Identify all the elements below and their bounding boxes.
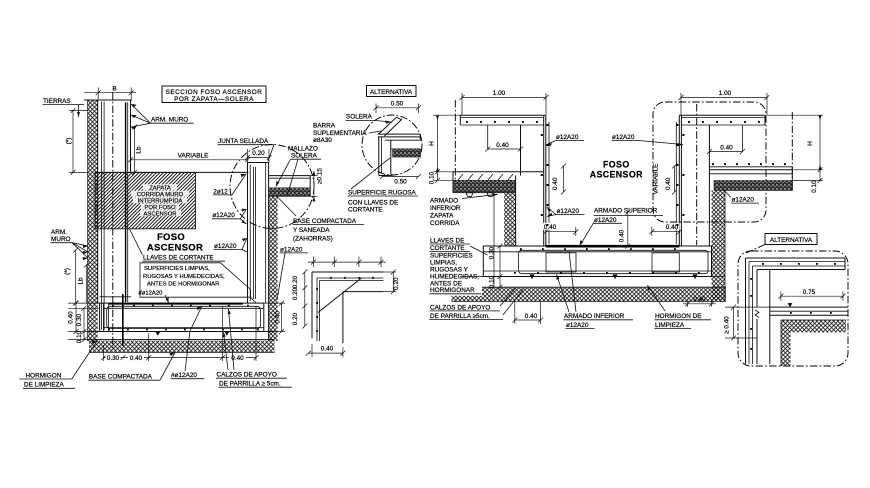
svg-text:HORMIGON: HORMIGON: [26, 372, 62, 379]
dowel bar: [122, 294, 124, 346]
label ø12A20 top left: [546, 134, 584, 146]
svg-text:#ø12A20: #ø12A20: [171, 372, 197, 379]
label CALZOS DE APOYO: [216, 309, 292, 388]
left slab-side dims 0.30 0.10: [489, 196, 503, 289]
svg-text:CORRIDA MURO: CORRIDA MURO: [137, 192, 184, 198]
svg-text:ø12A20: ø12A20: [612, 134, 635, 141]
svg-text:0.40: 0.40: [130, 355, 143, 362]
leader from note to slab: [165, 295, 169, 303]
svg-text:BARRA: BARRA: [313, 123, 336, 130]
svg-text:LLAVES DE: LLAVES DE: [430, 237, 464, 244]
svg-text:DE PARRILLA ≥5cm.: DE PARRILLA ≥5cm.: [430, 313, 490, 320]
left dims 0.40 0.30 0.10: [68, 301, 100, 344]
svg-text:ALTERNATIVA: ALTERNATIVA: [770, 237, 813, 244]
svg-text:#ø12A20: #ø12A20: [139, 291, 164, 297]
svg-text:0.75: 0.75: [803, 289, 816, 296]
svg-text:(*): (*): [66, 138, 73, 145]
svg-text:0.40: 0.40: [68, 311, 75, 324]
dimension 0.10 left: [429, 169, 454, 184]
svg-text:0.40: 0.40: [496, 142, 509, 149]
svg-text:0.40: 0.40: [720, 144, 733, 151]
label CALZOS DE APOYO right detail: [430, 288, 524, 320]
svg-text:0.10: 0.10: [76, 330, 83, 343]
svg-text:0.40: 0.40: [544, 224, 557, 231]
svg-text:0.10: 0.10: [489, 275, 496, 288]
0.40 vertical right wall: [665, 164, 677, 195]
svg-text:1.00: 1.00: [719, 90, 732, 97]
corner top dim line: [308, 257, 386, 268]
label MALLAZO SOLERA: [276, 146, 321, 197]
label ø12A20 mid left wall: [547, 207, 585, 217]
label BARRA SUPLEMENTARIA: [313, 123, 381, 144]
svg-text:0.20: 0.20: [292, 275, 299, 288]
svg-text:0.40: 0.40: [552, 177, 559, 190]
svg-text:H: H: [807, 141, 814, 146]
svg-text:ø12A20: ø12A20: [557, 208, 580, 215]
svg-text:CON LLAVES DE: CON LLAVES DE: [348, 199, 398, 206]
dimension 0.10 right: [792, 167, 823, 192]
svg-text:BASE COMPACTADA: BASE COMPACTADA: [89, 374, 153, 381]
right wall rounded dash rect: [653, 102, 766, 222]
left solera slab: [453, 172, 544, 197]
svg-text:ARMADO: ARMADO: [430, 198, 458, 205]
dimension 0.40 right wall: [707, 144, 745, 154]
svg-text:HORMIGONAR: HORMIGONAR: [430, 287, 475, 294]
label JUNTA SELLADA: [218, 138, 275, 161]
right wall verticals: [679, 115, 742, 246]
wall rebar verticals right detail: [548, 122, 550, 244]
svg-text:0.30: 0.30: [107, 355, 120, 362]
slab rebar dots right detail: [514, 248, 700, 274]
svg-text:Lb: Lb: [78, 277, 85, 285]
detail reference circle: [230, 145, 314, 229]
svg-text:MURO: MURO: [51, 236, 71, 243]
svg-text:VARIABLE: VARIABLE: [652, 164, 659, 195]
svg-text:0.40: 0.40: [525, 313, 538, 320]
svg-text:SUPERFICIE RUGOSA: SUPERFICIE RUGOSA: [348, 189, 417, 196]
zapata corrida hatched block: [95, 172, 196, 228]
earth band under slab: [89, 341, 275, 353]
svg-text:SUPERFICIES LIMPIAS,: SUPERFICIES LIMPIAS,: [144, 266, 210, 272]
calzos support triangles: [530, 275, 698, 280]
label BASE COMPACTADA: [88, 353, 175, 381]
label HORMIGON DE LIMPIEZA: [19, 341, 97, 389]
svg-text:ALTERNATIVA: ALTERNATIVA: [370, 89, 413, 96]
svg-text:POR ZAPATA—SOLERA: POR ZAPATA—SOLERA: [174, 96, 254, 103]
label ARMADO INFERIOR bottom: [557, 251, 634, 329]
svg-text:CORTANTE: CORTANTE: [430, 245, 465, 252]
svg-text:Lb: Lb: [136, 146, 143, 154]
corner bottom dim 0.40: [306, 344, 346, 357]
dimension 0.50 top: [374, 101, 421, 114]
label ø12A20 top right: [612, 134, 684, 146]
left dims (*) and Lb lower: [64, 248, 89, 306]
dimension 0.50 bottom: [380, 174, 421, 186]
svg-text:BASE COMPACTADA: BASE COMPACTADA: [293, 218, 357, 225]
svg-text:ø12A20: ø12A20: [214, 243, 237, 250]
earth strip right wall outside: [712, 191, 726, 301]
svg-text:ASCENSOR: ASCENSOR: [147, 243, 203, 254]
alt corner top slab: [746, 258, 846, 270]
title box: [162, 86, 266, 103]
svg-text:ASCENSOR: ASCENSOR: [143, 212, 176, 218]
label LLAVES DE CORTANTE ... left column: [428, 237, 488, 295]
corner left dims 0.20 x3: [292, 270, 307, 329]
label BASE COMPACTADA Y SANEADA: [293, 218, 365, 243]
label TIERRAS: [43, 98, 85, 117]
pit bottom slab: [100, 297, 264, 332]
dimension >=0.15: [310, 168, 323, 202]
svg-text:0.20: 0.20: [393, 277, 400, 290]
earth strip right of pit wall: [269, 196, 278, 341]
dimension H right: [767, 115, 823, 170]
earth strip left wall outside: [504, 193, 515, 246]
dimension 0.40 left wall: [485, 142, 523, 152]
svg-text:0.50: 0.50: [394, 179, 407, 186]
wall rebar marks left: [541, 124, 549, 226]
corner wall lines: [312, 272, 383, 343]
dimension Lb upper: [132, 125, 143, 175]
label ARMADO INFERIOR ZAPATA CORRIDA: [430, 193, 498, 227]
svg-text:H: H: [429, 141, 436, 146]
label SUPERFICIE RUGOSA: [348, 158, 419, 213]
earth hatch strip left wall: [88, 100, 98, 341]
label ø12A20 right solera: [722, 188, 759, 204]
dimension 0.40 bottom right: [683, 296, 716, 307]
svg-text:ASCENSOR: ASCENSOR: [590, 170, 643, 180]
label 2ø12: [213, 174, 246, 195]
svg-text:0.40: 0.40: [693, 296, 706, 303]
svg-text:≥0.15: ≥0.15: [317, 168, 324, 184]
dimension 0.40 key right: [649, 223, 682, 236]
svg-text:ARM.: ARM.: [51, 229, 67, 236]
alternativa label box right: [746, 234, 817, 254]
svg-text:ZAPATA: ZAPATA: [149, 186, 171, 192]
label SOLERA: [346, 114, 392, 124]
svg-text:ø12A20: ø12A20: [566, 322, 589, 329]
left wall axis dash-dot: [454, 100, 456, 180]
svg-text:JUNTA SELLADA: JUNTA SELLADA: [218, 138, 269, 145]
svg-text:CORTANTE: CORTANTE: [348, 206, 383, 213]
rounded dash border: [738, 251, 848, 366]
dimension >=0.40 alt: [724, 305, 770, 341]
svg-text:B: B: [112, 86, 116, 93]
bottom dim line: [101, 306, 259, 362]
left wall verticals: [488, 115, 546, 246]
dimension B: [84, 86, 136, 99]
svg-text:SOLERA: SOLERA: [291, 153, 318, 160]
svg-text:DE LIMPIEZA: DE LIMPIEZA: [24, 382, 65, 389]
FOSO ASCENSOR right: [590, 160, 643, 180]
right dim 0.40 of left detail: [264, 301, 285, 334]
alt rebar dots: [750, 263, 836, 350]
dimension 0.40 key left: [543, 223, 579, 236]
right solera slab: [709, 163, 792, 190]
pit bottom slab right detail: [483, 246, 711, 277]
svg-text:FOSO: FOSO: [603, 160, 630, 170]
dimension (*) upper: [66, 108, 89, 175]
calzos support triangles A: [155, 332, 229, 336]
svg-text:POR FOSO: POR FOSO: [144, 205, 176, 211]
corner right dim 0.20: [383, 270, 399, 295]
svg-text:0.40: 0.40: [619, 229, 626, 242]
label ø12A20 corner: [277, 246, 308, 300]
right wall axis dash-dot: [696, 104, 698, 245]
wall rebar marks right: [676, 124, 684, 226]
svg-text:ARM. MURO: ARM. MURO: [151, 117, 188, 124]
corner rebar dots: [316, 277, 374, 332]
svg-text:ø12A20: ø12A20: [280, 246, 303, 253]
hormigon de limpieza layer: [89, 332, 275, 340]
svg-text:LLAVES DE CORTANTE: LLAVES DE CORTANTE: [143, 255, 214, 262]
alt corner wall: [746, 258, 770, 364]
right top slab: [679, 115, 765, 125]
solera edge axis dash-dot: [791, 112, 793, 178]
label ø12A20 mid: [212, 209, 247, 224]
svg-text:0.20: 0.20: [292, 312, 299, 325]
label ARM. MURO lower: [51, 229, 89, 260]
leader base compactada to solera: [277, 196, 296, 216]
dimension 0.40 bottom left small: [512, 302, 543, 325]
svg-text:HORMIGON DE: HORMIGON DE: [655, 313, 702, 320]
svg-text:0.30: 0.30: [76, 313, 83, 326]
ground line to pit wall: [95, 171, 249, 173]
alternativa label box: [367, 86, 417, 97]
label LLAVES DE CORTANTE: [130, 229, 225, 262]
svg-text:(ZAHORRAS): (ZAHORRAS): [293, 235, 333, 242]
label #ø12A20 bottom: [171, 307, 205, 380]
svg-text:0.40: 0.40: [321, 346, 334, 353]
limpieza layer right detail: [451, 277, 726, 288]
svg-text:0.30: 0.30: [489, 246, 496, 259]
earth band right detail: [451, 288, 726, 302]
svg-text:1.00: 1.00: [493, 90, 506, 97]
svg-text:ARMADO INFERIOR: ARMADO INFERIOR: [564, 313, 625, 320]
svg-text:(*): (*): [64, 268, 71, 275]
pit floor thick line: [546, 245, 680, 248]
alt corner earth hatch: [781, 320, 846, 366]
label ø12A20 lower: [214, 238, 248, 252]
top slab rebar dots: [466, 121, 760, 123]
svg-text:ø12A20: ø12A20: [212, 212, 235, 219]
svg-text:SOLERA: SOLERA: [346, 114, 373, 121]
svg-text:MALLAZO: MALLAZO: [288, 146, 318, 153]
svg-text:0.10: 0.10: [811, 180, 818, 193]
svg-text:CALZOS DE APOYO: CALZOS DE APOYO: [430, 304, 490, 311]
svg-text:FOSO: FOSO: [157, 232, 185, 243]
alt solera slab: [378, 117, 420, 175]
dimension H left: [429, 115, 461, 172]
svg-text:ARMADO SUPERIOR: ARMADO SUPERIOR: [594, 208, 658, 215]
label ARMADO SUPERIOR: [580, 208, 663, 246]
dimension 0.40 vertical mid: [619, 210, 631, 249]
dimension 1.00 right: [679, 90, 770, 115]
dimension 1.00 left: [460, 90, 549, 115]
svg-text:CALZOS DE APOYO: CALZOS DE APOYO: [217, 372, 277, 379]
svg-text:VARIABLE: VARIABLE: [178, 153, 209, 160]
slab rebar dots: [108, 305, 259, 331]
svg-text:0.20: 0.20: [292, 287, 299, 300]
svg-text:SUPLEMENTARIA: SUPLEMENTARIA: [313, 130, 367, 137]
svg-text:ø12A20: ø12A20: [732, 197, 755, 204]
svg-text:Y SANEADA: Y SANEADA: [293, 227, 330, 234]
zapata text: [131, 184, 189, 217]
svg-text:ø12A20: ø12A20: [556, 134, 579, 141]
pit right wall: [248, 163, 269, 342]
label ARM. MURO top: [131, 104, 194, 130]
svg-text:ANTES DE HORMIGONAR: ANTES DE HORMIGONAR: [147, 282, 219, 288]
svg-text:0.40: 0.40: [275, 311, 282, 324]
svg-text:2ø12: 2ø12: [213, 188, 228, 195]
alt detail circle: [362, 115, 422, 175]
dimension 0.20 joint: [245, 149, 272, 163]
FOSO ASCENSOR big: [147, 232, 203, 254]
svg-text:ZAPATA: ZAPATA: [430, 213, 454, 220]
solera slab right of pit: [269, 176, 311, 197]
svg-text:ø8A30: ø8A30: [313, 137, 332, 144]
svg-text:0.20: 0.20: [252, 150, 265, 157]
wall muro lines: [84, 100, 132, 330]
alt corner solera: [770, 307, 848, 315]
note box superficies: [139, 263, 257, 303]
wall axis dash-dot: [112, 92, 114, 348]
svg-text:0.50: 0.50: [391, 101, 404, 108]
dimension 0.75: [778, 289, 845, 301]
svg-text:ø12A20: ø12A20: [594, 217, 617, 224]
dimension 0.40 vertical left pit: [552, 164, 566, 195]
svg-text:LIMPIEZA: LIMPIEZA: [655, 322, 685, 329]
svg-text:0.40: 0.40: [665, 177, 672, 190]
svg-text:TIERRAS: TIERRAS: [43, 98, 71, 105]
label HORMIGON DE LIMPIEZA bottom: [647, 285, 711, 329]
svg-text:RUGOSAS Y HUMEDECIDAS,: RUGOSAS Y HUMEDECIDAS,: [143, 274, 225, 280]
dimension VARIABLE: [128, 153, 250, 163]
svg-text:CORRIDA: CORRIDA: [430, 220, 460, 227]
left top slab: [460, 115, 546, 125]
svg-text:DE PARRILLA ≥ 5cm.: DE PARRILLA ≥ 5cm.: [219, 381, 281, 388]
svg-text:0.10: 0.10: [429, 171, 436, 184]
svg-text:INFERIOR: INFERIOR: [430, 205, 461, 212]
svg-text:INTERRUMPIDA: INTERRUMPIDA: [138, 199, 183, 205]
svg-text:≥ 0.40: ≥ 0.40: [724, 316, 731, 334]
